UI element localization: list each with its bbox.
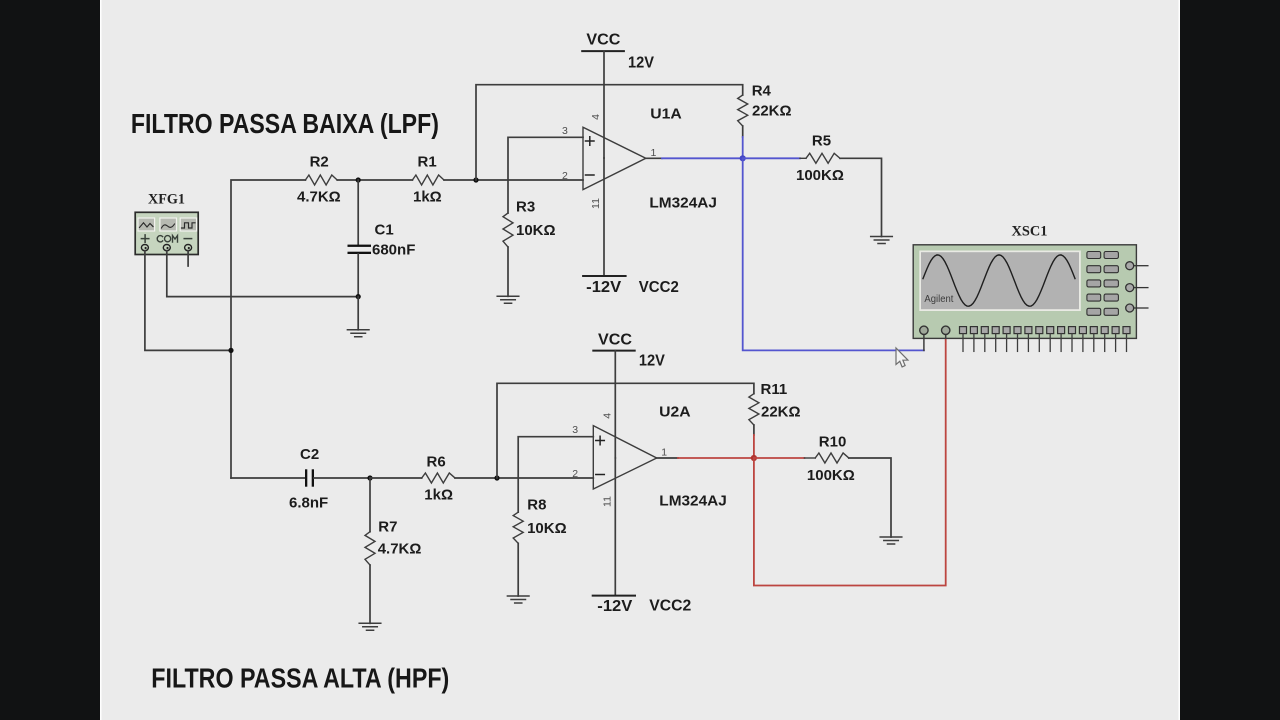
svg-text:FILTRO PASSA ALTA (HPF): FILTRO PASSA ALTA (HPF) xyxy=(151,662,449,693)
ground below R5 xyxy=(871,237,893,244)
resistor R2 xyxy=(305,175,337,185)
svg-text:R5: R5 xyxy=(812,132,831,149)
wire VCC to U2A pin4 xyxy=(614,351,616,458)
node C1/COM xyxy=(356,294,361,299)
wire XFG1 COM to C1 ground node xyxy=(167,251,358,297)
scope knob 2 with stub xyxy=(1126,284,1148,292)
svg-text:22KΩ: 22KΩ xyxy=(752,102,792,119)
ground below R8 xyxy=(507,596,529,603)
svg-text:2: 2 xyxy=(572,468,578,480)
XFG1 terminal minus xyxy=(185,245,192,251)
svg-text:VCC2: VCC2 xyxy=(639,279,679,296)
scope knob 1 with stub xyxy=(1126,262,1148,270)
wire feedback up and over to R11 xyxy=(497,383,754,478)
svg-text:XFG1: XFG1 xyxy=(148,192,185,208)
wire U1A pin11 down xyxy=(603,158,605,276)
svg-text:3: 3 xyxy=(572,424,578,436)
resistor R4 xyxy=(738,95,748,126)
scope input terminal 1 xyxy=(920,326,928,350)
wire feedback up and over to R4 xyxy=(476,85,743,180)
scope knob 3 with stub xyxy=(1126,304,1148,312)
wire blue node down to scope xyxy=(743,158,924,350)
svg-text:3: 3 xyxy=(562,125,568,137)
wire U2A pin11 down xyxy=(614,458,616,596)
node blue output junction xyxy=(740,155,746,161)
capacitor C2 xyxy=(289,446,370,511)
svg-text:1: 1 xyxy=(661,447,667,459)
right page edge highlight xyxy=(1179,0,1181,720)
svg-text:FILTRO PASSA BAIXA (LPF): FILTRO PASSA BAIXA (LPF) xyxy=(131,108,439,139)
svg-text:1kΩ: 1kΩ xyxy=(424,486,453,503)
svg-text:R6: R6 xyxy=(427,453,446,470)
svg-text:100KΩ: 100KΩ xyxy=(796,167,844,184)
wire output net red xyxy=(678,457,754,459)
svg-text:4.7KΩ: 4.7KΩ xyxy=(297,188,341,205)
wire R11 bottom lead xyxy=(753,425,755,435)
scope waveform trace xyxy=(923,255,1075,306)
XFG1 terminal + xyxy=(141,245,148,251)
scope pin terminals row xyxy=(960,327,1131,334)
wire R5 to ground xyxy=(840,158,882,236)
svg-text:R3: R3 xyxy=(516,199,535,216)
svg-text:U2A: U2A xyxy=(659,404,691,421)
wire R4 bottom lead xyxy=(742,126,744,137)
wire U1A output stub xyxy=(646,157,662,159)
scope input terminal 2 xyxy=(942,326,950,340)
wire R2 to node xyxy=(337,179,412,181)
wire VCC to U1A pin4 xyxy=(603,51,605,158)
node C2/R7/R6 xyxy=(367,475,372,480)
svg-text:1kΩ: 1kΩ xyxy=(413,188,442,205)
svg-text:XSC1: XSC1 xyxy=(1012,223,1048,239)
resistor R8 xyxy=(513,512,523,543)
power VEE -12V VCC2 (LPF) xyxy=(583,276,679,296)
svg-text:10KΩ: 10KΩ xyxy=(527,520,567,537)
svg-text:VCC: VCC xyxy=(598,331,632,348)
function generator XFG1 body xyxy=(135,212,198,254)
svg-text:12V: 12V xyxy=(628,54,654,71)
resistor R1 xyxy=(412,175,444,185)
wire node to R6 xyxy=(370,477,422,479)
svg-text:22KΩ: 22KΩ xyxy=(761,403,801,420)
ground below R7 xyxy=(359,623,381,630)
wire U2A output stub xyxy=(657,457,678,459)
svg-text:LM324AJ: LM324AJ xyxy=(659,493,727,510)
svg-text:R8: R8 xyxy=(527,496,546,513)
mouse cursor xyxy=(896,348,908,367)
svg-text:U1A: U1A xyxy=(650,105,682,122)
wire output net blue xyxy=(662,157,743,159)
svg-text:C2: C2 xyxy=(300,446,319,463)
node red output junction xyxy=(751,455,757,461)
wire XFG1 plus to input node xyxy=(145,251,231,351)
wire R8 to ground xyxy=(517,543,519,596)
svg-text:10KΩ: 10KΩ xyxy=(516,222,556,239)
op-amp U1A xyxy=(583,105,717,211)
svg-text:-12V: -12V xyxy=(586,279,621,296)
resistor R10 xyxy=(804,457,815,459)
power VCC 12V (HPF) xyxy=(593,331,665,369)
svg-text:R4: R4 xyxy=(752,82,772,99)
node R2/R1/C1 xyxy=(356,177,361,182)
svg-text:LM324AJ: LM324AJ xyxy=(649,194,717,211)
svg-text:100KΩ: 100KΩ xyxy=(807,467,855,484)
svg-text:R11: R11 xyxy=(761,381,788,398)
wire HPF input xyxy=(231,477,306,479)
power VEE -12V VCC2 (HPF) xyxy=(593,596,692,615)
svg-text:-12V: -12V xyxy=(597,598,632,615)
ground below R3 xyxy=(497,296,519,303)
capacitor C1 xyxy=(348,180,416,297)
svg-text:11: 11 xyxy=(601,496,613,507)
svg-text:R10: R10 xyxy=(819,433,847,450)
svg-text:680nF: 680nF xyxy=(372,241,415,258)
svg-text:4: 4 xyxy=(601,413,613,419)
resistor R7 xyxy=(365,478,421,565)
oscilloscope XSC1 body xyxy=(913,245,1136,339)
svg-text:VCC2: VCC2 xyxy=(649,597,691,614)
node R1/feedback xyxy=(473,177,478,182)
wire R3 to ground xyxy=(507,247,509,296)
wire red node to R10 xyxy=(754,457,805,459)
XFG1 terminal COM xyxy=(163,245,170,251)
node R6/feedback xyxy=(494,475,499,480)
wire noninverting input to R3 xyxy=(508,137,583,213)
power VCC 12V (LPF) xyxy=(582,32,654,72)
svg-text:4: 4 xyxy=(590,114,602,120)
wire blue node to R5 xyxy=(743,157,800,159)
resistor R11 xyxy=(749,394,759,425)
wire C1 node to ground xyxy=(357,297,359,330)
svg-text:R1: R1 xyxy=(418,154,437,171)
wire noninverting input to R8 xyxy=(518,437,593,513)
wire R6 to op-amp pin2 xyxy=(455,477,593,479)
wire input vertical bus xyxy=(231,180,305,478)
wire R10 to ground xyxy=(849,458,891,537)
wire XFG1 minus stub xyxy=(187,251,189,266)
scope pin leads xyxy=(963,334,1127,352)
svg-text:1: 1 xyxy=(651,147,657,159)
svg-text:C1: C1 xyxy=(375,222,394,239)
resistor R5 xyxy=(800,157,806,159)
op-amp U2A xyxy=(593,404,727,510)
svg-text:R2: R2 xyxy=(310,154,329,171)
resistor R3 xyxy=(503,213,513,247)
svg-text:12V: 12V xyxy=(639,352,665,369)
svg-text:R7: R7 xyxy=(378,518,397,535)
node input junction xyxy=(228,348,233,353)
wire R7 to ground xyxy=(369,565,371,623)
svg-text:11: 11 xyxy=(590,198,602,209)
wire red node down to scope xyxy=(754,340,946,586)
svg-text:VCC: VCC xyxy=(586,32,620,49)
svg-text:2: 2 xyxy=(562,170,568,182)
svg-text:6.8nF: 6.8nF xyxy=(289,494,328,511)
wire R1 to op-amp pin2 xyxy=(444,179,583,181)
svg-text:4.7KΩ: 4.7KΩ xyxy=(378,540,422,557)
left page edge highlight xyxy=(100,0,102,720)
scope button grid xyxy=(1087,252,1119,316)
ground below C1 xyxy=(347,330,369,337)
svg-text:Agilent: Agilent xyxy=(924,294,953,305)
ground below R10 xyxy=(880,537,902,544)
resistor R6 xyxy=(422,473,455,483)
wire R11 to output node red xyxy=(753,435,755,458)
wire R4 to output node blue xyxy=(742,137,744,158)
